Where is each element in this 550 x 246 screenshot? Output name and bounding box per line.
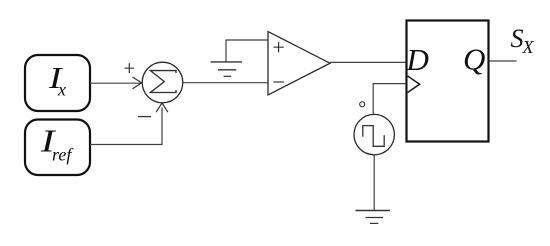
clock edge triangle — [408, 76, 420, 93]
svg-text:x: x — [57, 80, 66, 100]
arrowhead into summing junction left — [133, 77, 142, 88]
plus label — [125, 63, 135, 73]
ground G2 — [356, 211, 390, 224]
wire summing junction to comparator inverting input — [183, 82, 268, 84]
minus input marker — [273, 81, 283, 83]
ground G1 — [211, 62, 242, 76]
output wire Q to Sx — [490, 60, 517, 62]
node marker small circle — [360, 102, 365, 107]
svg-text:X: X — [522, 37, 535, 57]
block Ix — [25, 55, 90, 111]
comparator U1 — [268, 32, 330, 95]
svg-text:ref: ref — [52, 144, 74, 164]
wire Iref to summing junction — [90, 108, 162, 145]
D flip-flop U2 — [406, 21, 489, 142]
wire Ix to summing junction — [90, 82, 141, 84]
wire clock source to ground — [373, 155, 375, 210]
svg-text:Q: Q — [463, 41, 485, 76]
square wave symbol — [363, 126, 384, 147]
clock source V1 — [354, 114, 394, 154]
plus input marker — [273, 42, 283, 52]
wire comparator noninverting input to ground — [226, 40, 268, 62]
block Iref — [25, 120, 90, 176]
sigma symbol — [150, 71, 176, 93]
label Sx — [511, 24, 535, 57]
minus label — [138, 116, 151, 118]
svg-text:D: D — [406, 42, 429, 77]
wire clock source to flip-flop clock input — [373, 84, 406, 115]
wire comparator output to D input — [330, 61, 406, 63]
arrowhead into summing junction bottom — [156, 103, 167, 112]
summing junction circle — [142, 62, 183, 103]
